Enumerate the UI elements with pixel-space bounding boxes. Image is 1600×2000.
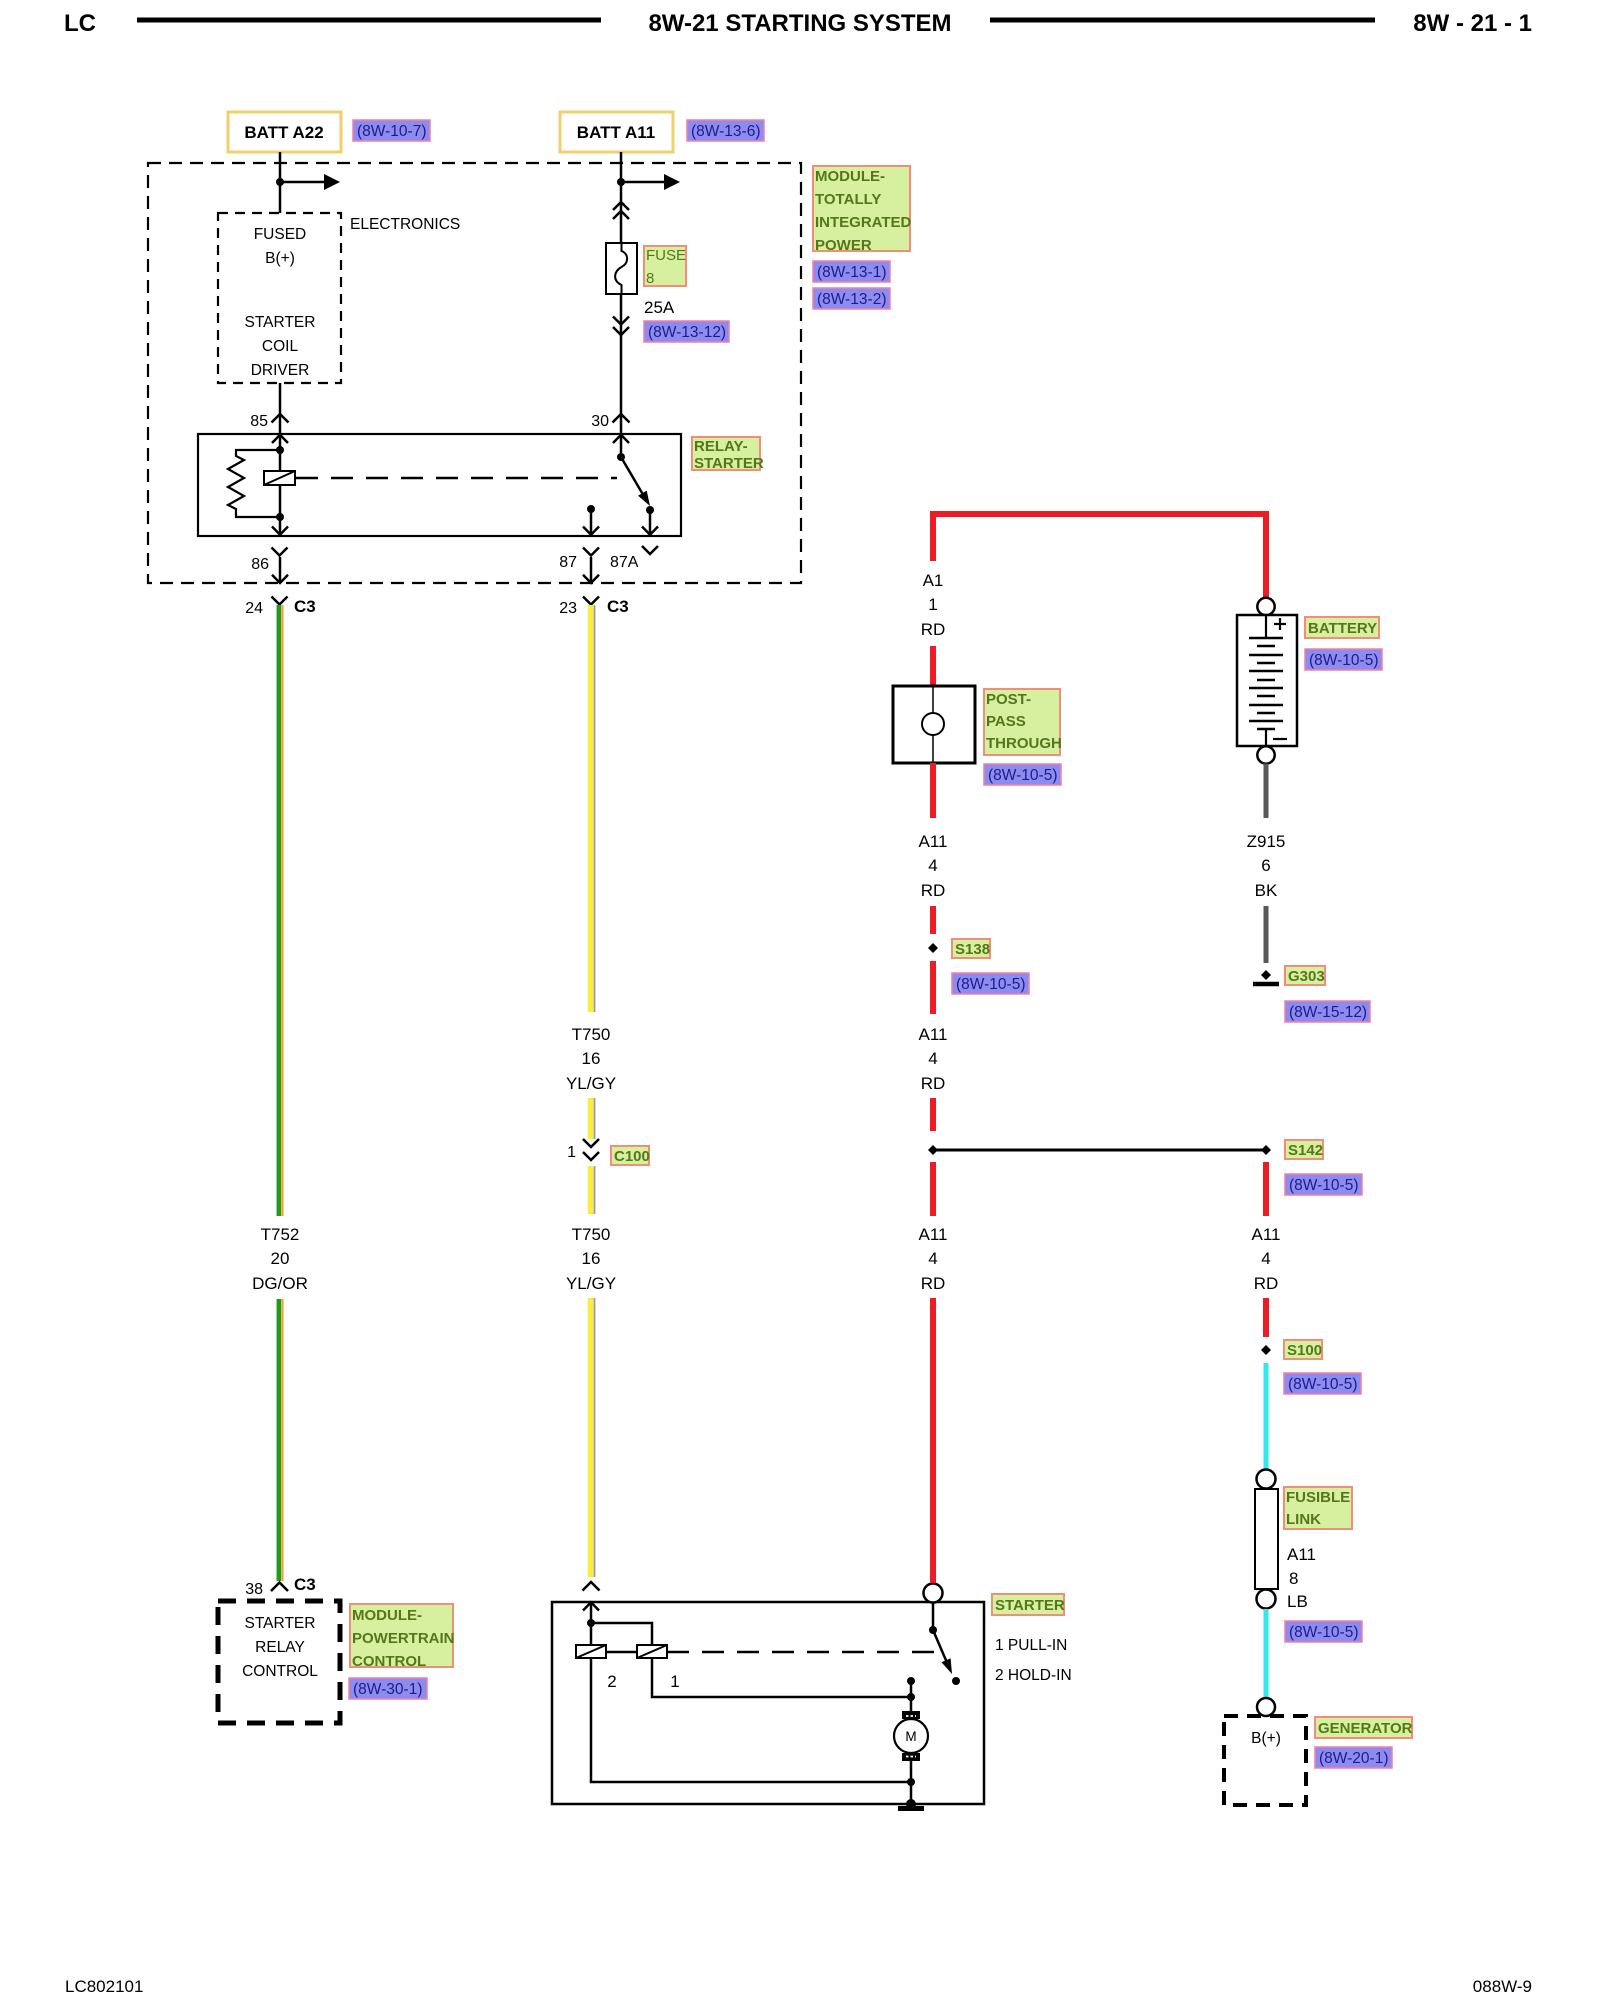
- fuse F8 symbol: [606, 243, 637, 295]
- svg-text:RELAY-: RELAY-: [694, 438, 748, 455]
- svg-text:20: 20: [271, 1249, 290, 1268]
- wire A1 1 RD top run: [933, 514, 1266, 597]
- wire label Z915 6 BK: [1247, 832, 1286, 900]
- svg-text:STARTER: STARTER: [245, 1615, 316, 1632]
- svg-text:YL/GY: YL/GY: [566, 1274, 616, 1293]
- wire A11 RD to starter solenoid: [930, 1298, 936, 1583]
- svg-text:C3: C3: [607, 597, 629, 616]
- svg-text:BK: BK: [1255, 881, 1278, 900]
- starter internal dashed actuation line: [667, 1651, 938, 1654]
- wire T752 20 DG/OR upper segment: [279, 605, 283, 1216]
- wire pin 87A to box edge with down arrow: [642, 510, 658, 535]
- reference label (8W-13-12): [644, 321, 729, 342]
- svg-text:LC: LC: [64, 10, 96, 37]
- ground label G303: [1285, 966, 1325, 985]
- svg-text:8W - 21 - 1: 8W - 21 - 1: [1413, 10, 1532, 37]
- ground G303 symbol: [1253, 970, 1279, 984]
- wire label A11 4 RD (right): [1252, 1225, 1281, 1293]
- svg-text:8W-21 STARTING SYSTEM: 8W-21 STARTING SYSTEM: [648, 10, 951, 37]
- wire label A1 1 RD: [921, 571, 946, 639]
- svg-text:(8W-10-5): (8W-10-5): [956, 976, 1025, 993]
- node motor branch top: [907, 1677, 915, 1685]
- svg-text:BATT A22: BATT A22: [244, 123, 323, 142]
- svg-text:Z915: Z915: [1247, 832, 1286, 851]
- fuse block BATT A22: [228, 112, 341, 152]
- svg-text:A11: A11: [919, 1025, 948, 1044]
- svg-text:(8W-10-5): (8W-10-5): [1289, 1624, 1358, 1641]
- label FUSE 8: [644, 246, 686, 287]
- label FUSIBLE LINK: [1284, 1487, 1352, 1529]
- wire T750 16 YL/GY segment 1: [591, 605, 595, 1012]
- wire T750 16 YL/GY segment 3: [591, 1166, 595, 1214]
- wire A11 RD to S142: [930, 1098, 936, 1131]
- module TIPM dashed boundary box: [148, 163, 801, 583]
- reference label (8W-13-2): [813, 288, 890, 309]
- starter solenoid switch wire: [932, 1602, 935, 1630]
- wire label A11 4 RD (3): [919, 1225, 948, 1293]
- connector C3 pin 23 chevron: [583, 597, 599, 605]
- svg-text:(8W-20-1): (8W-20-1): [1319, 1750, 1388, 1767]
- node at starter case: [906, 1799, 916, 1809]
- label POST-PASS THROUGH: [984, 689, 1062, 755]
- svg-text:T750: T750: [572, 1025, 611, 1044]
- svg-text:CONTROL: CONTROL: [242, 1663, 318, 1680]
- svg-text:STARTER: STARTER: [995, 1597, 1065, 1614]
- svg-text:87A: 87A: [610, 554, 639, 571]
- wire splice branch to S142: [933, 1149, 1266, 1152]
- svg-text:8: 8: [646, 270, 654, 287]
- svg-text:S138: S138: [955, 941, 990, 958]
- svg-text:C3: C3: [294, 597, 316, 616]
- svg-text:(8W-10-5): (8W-10-5): [1288, 1376, 1357, 1393]
- relay pin 85 internal wire with up arrow: [272, 434, 288, 471]
- svg-text:6: 6: [1261, 856, 1270, 875]
- wire to pull-in coil: [591, 1623, 652, 1645]
- header rule left: [137, 18, 601, 23]
- reference label (8W-10-5) post: [984, 764, 1061, 785]
- ground bar starter case: [898, 1806, 924, 1811]
- wire from FUSED box to relay pin 85: [279, 383, 282, 434]
- svg-text:FUSE: FUSE: [646, 247, 686, 264]
- wire label T750 16 YL/GY (lower): [566, 1225, 616, 1293]
- reference label (8W-30-1): [349, 1678, 427, 1699]
- svg-text:T750: T750: [572, 1225, 611, 1244]
- wire Z915 BK to ground: [1264, 906, 1269, 963]
- svg-text:(8W-15-12): (8W-15-12): [1289, 1004, 1367, 1021]
- post pass-through device: [893, 686, 975, 763]
- svg-text:25A: 25A: [644, 298, 675, 317]
- splice label S138: [952, 939, 990, 958]
- fusible link terminal top circle: [1257, 1470, 1276, 1489]
- svg-text:1: 1: [670, 1672, 679, 1691]
- svg-text:(8W-10-5): (8W-10-5): [1289, 1177, 1358, 1194]
- node splice S138: [928, 943, 938, 953]
- battery terminal top circle: [1257, 598, 1274, 615]
- generator terminal circle: [1257, 1698, 1275, 1716]
- reference label (8W-10-7): [353, 120, 430, 141]
- splice label S100: [1284, 1340, 1322, 1359]
- node solenoid switch pivot: [929, 1626, 937, 1634]
- svg-text:RD: RD: [921, 1074, 946, 1093]
- svg-text:ELECTRONICS: ELECTRONICS: [350, 216, 460, 233]
- svg-text:BATTERY: BATTERY: [1308, 620, 1377, 637]
- svg-text:RD: RD: [921, 620, 946, 639]
- node splice S100: [1261, 1345, 1271, 1355]
- svg-text:088W-9: 088W-9: [1473, 1977, 1532, 1996]
- svg-text:T752: T752: [261, 1225, 300, 1244]
- connector double chevron below fuse: [613, 317, 629, 336]
- wire from BATT A11 down: [620, 152, 623, 244]
- pull-in coil wire to motor feed: [652, 1658, 911, 1697]
- starter motor box: [552, 1602, 984, 1804]
- svg-text:LC802101: LC802101: [65, 1977, 143, 1996]
- starter input connector chevron: [583, 1582, 600, 1591]
- relay coil element: [264, 471, 295, 517]
- svg-text:A1: A1: [923, 571, 944, 590]
- reference label (8W-10-5) S100: [1284, 1373, 1361, 1394]
- svg-text:(8W-10-7): (8W-10-7): [357, 123, 426, 140]
- wire from BATT A22 down: [279, 152, 282, 213]
- svg-text:GENERATOR: GENERATOR: [1318, 1720, 1413, 1737]
- starter B+ terminal circle: [924, 1584, 943, 1603]
- battery body: [1237, 615, 1297, 746]
- svg-text:M: M: [905, 1729, 916, 1744]
- resistor in relay: [228, 450, 280, 517]
- label RELAY-STARTER: [692, 437, 764, 472]
- svg-text:8: 8: [1289, 1569, 1298, 1588]
- svg-text:POWER: POWER: [815, 237, 872, 254]
- svg-text:A11: A11: [919, 832, 948, 851]
- svg-text:A11: A11: [1287, 1545, 1316, 1564]
- svg-text:MODULE-: MODULE-: [352, 1607, 422, 1624]
- wire T752 20 DG/OR lower segment: [279, 1299, 283, 1581]
- svg-text:INTEGRATED: INTEGRATED: [815, 214, 912, 231]
- reference label (8W-13-6): [687, 120, 764, 141]
- wire from fuse down to relay pin 30: [620, 294, 623, 434]
- svg-text:4: 4: [928, 856, 937, 875]
- connector C3 pin 38 chevron: [271, 1583, 288, 1592]
- svg-text:1: 1: [567, 1144, 576, 1161]
- label MODULE-TOTALLY INTEGRATED POWER: [813, 166, 912, 254]
- wire Z915 6 BK upper: [1264, 764, 1269, 819]
- motor M with brushes: [894, 1711, 928, 1761]
- pin 85 connector chevron: [272, 414, 289, 423]
- svg-text:B(+): B(+): [265, 250, 295, 267]
- reference label (8W-15-12): [1285, 1001, 1370, 1022]
- reference label (8W-10-5) S138: [952, 973, 1029, 994]
- svg-text:TOTALLY: TOTALLY: [815, 191, 881, 208]
- pin 87A connector chevron: [642, 546, 658, 554]
- node junction on A22 feed: [276, 178, 284, 186]
- wire LB to fusible link: [1264, 1363, 1269, 1469]
- module PCM dashed box STARTER RELAY CONTROL: [218, 1601, 340, 1723]
- svg-text:86: 86: [251, 556, 269, 573]
- svg-text:23: 23: [559, 600, 577, 617]
- wire A11 RD to S138: [930, 906, 936, 934]
- svg-text:4: 4: [928, 1049, 937, 1068]
- solenoid switch blade arrow: [933, 1630, 952, 1674]
- svg-text:C3: C3: [294, 1575, 316, 1594]
- svg-text:YL/GY: YL/GY: [566, 1074, 616, 1093]
- node coil bottom junction: [276, 513, 284, 521]
- relay pin 30 internal wire with up arrow: [613, 434, 629, 457]
- svg-text:16: 16: [582, 1049, 601, 1068]
- node starter coil split: [587, 1619, 595, 1627]
- fusible link terminal bottom circle: [1257, 1590, 1276, 1609]
- svg-text:A11: A11: [919, 1225, 948, 1244]
- svg-text:24: 24: [245, 600, 263, 617]
- svg-text:38: 38: [245, 1581, 263, 1598]
- svg-text:COIL: COIL: [262, 338, 299, 355]
- starter control input wire with up arrow: [583, 1602, 599, 1623]
- svg-text:(8W-30-1): (8W-30-1): [353, 1681, 422, 1698]
- svg-text:(8W-10-5): (8W-10-5): [1309, 652, 1378, 669]
- svg-text:(8W-10-5): (8W-10-5): [988, 767, 1057, 784]
- pull-in coil 1 element: [637, 1645, 667, 1658]
- node motor feed junction: [907, 1693, 915, 1701]
- svg-text:(8W-13-6): (8W-13-6): [691, 123, 760, 140]
- wire label A11 8 LB: [1287, 1545, 1316, 1611]
- svg-text:2 HOLD-IN: 2 HOLD-IN: [995, 1667, 1072, 1684]
- svg-text:POST-: POST-: [986, 691, 1031, 708]
- svg-text:RELAY: RELAY: [255, 1639, 305, 1656]
- wire A11 4 RD below post: [930, 763, 936, 818]
- relay K1 starter relay box: [198, 434, 681, 536]
- fusible link body: [1255, 1489, 1278, 1589]
- svg-text:CONTROL: CONTROL: [352, 1653, 426, 1670]
- svg-text:C100: C100: [614, 1148, 650, 1165]
- wire branch arrow right from A11 feed: [621, 174, 680, 190]
- svg-text:(8W-13-2): (8W-13-2): [817, 291, 886, 308]
- node pin 87A contact: [646, 506, 654, 514]
- svg-text:A11: A11: [1252, 1225, 1281, 1244]
- reference label (8W-10-5) S142: [1285, 1174, 1362, 1195]
- fuse block BATT A11: [560, 112, 673, 152]
- svg-text:THROUGH: THROUGH: [986, 735, 1062, 752]
- header rule right: [990, 18, 1375, 23]
- svg-text:(8W-13-12): (8W-13-12): [648, 324, 726, 341]
- reference label (8W-10-5) battery: [1305, 649, 1382, 670]
- reference label (8W-13-1): [813, 261, 890, 282]
- svg-text:STARTER: STARTER: [694, 455, 764, 472]
- svg-text:G303: G303: [1288, 968, 1325, 985]
- svg-text:FUSED: FUSED: [254, 226, 307, 243]
- wire label T750 16 YL/GY (upper): [566, 1025, 616, 1093]
- wire A11 RD right branch upper: [1263, 1162, 1269, 1216]
- label MODULE-POWERTRAIN CONTROL: [350, 1604, 455, 1670]
- node switch pivot: [617, 453, 625, 461]
- node pin 87 contact: [587, 505, 595, 513]
- svg-text:85: 85: [250, 413, 268, 430]
- reference label (8W-20-1): [1315, 1747, 1392, 1768]
- relay switch blade arrow: [621, 457, 650, 506]
- motor ground wire: [910, 1761, 913, 1806]
- connector label C100: [611, 1146, 650, 1165]
- svg-text:RD: RD: [1254, 1274, 1279, 1293]
- wire pin 87 to box edge with down arrow: [583, 509, 599, 535]
- hold-in coil return wire: [591, 1658, 911, 1782]
- svg-text:RD: RD: [921, 1274, 946, 1293]
- connector double chevron above fuse: [613, 202, 629, 219]
- svg-text:30: 30: [591, 413, 609, 430]
- reference label (8W-10-5) link: [1285, 1621, 1362, 1642]
- svg-text:POWERTRAIN: POWERTRAIN: [352, 1630, 455, 1647]
- wire A1 RD to post: [930, 646, 936, 686]
- relay internal dashed actuation line: [296, 477, 617, 480]
- wire T750 16 YL/GY segment 4: [591, 1298, 595, 1577]
- connector C3 pin 24 chevron: [272, 597, 288, 605]
- wire A11 RD below S138: [930, 961, 936, 1014]
- svg-text:2: 2: [607, 1672, 616, 1691]
- svg-text:B(+): B(+): [1251, 1730, 1281, 1747]
- svg-text:4: 4: [1261, 1249, 1270, 1268]
- node junction on A11 feed: [617, 178, 625, 186]
- svg-text:S142: S142: [1288, 1142, 1323, 1159]
- svg-text:FUSIBLE: FUSIBLE: [1286, 1489, 1350, 1506]
- wire T750 16 YL/GY segment 2: [591, 1098, 595, 1139]
- pin 30 connector chevron: [613, 414, 630, 423]
- generator dashed box B(+): [1224, 1716, 1306, 1805]
- svg-text:RD: RD: [921, 881, 946, 900]
- pin 87 connector and wire to module edge: [583, 548, 599, 584]
- node solenoid contact: [952, 1677, 960, 1685]
- node motor return junction: [907, 1778, 915, 1786]
- pin 86 connector and wire to module edge: [272, 548, 289, 584]
- node splice S142 left: [928, 1145, 938, 1155]
- svg-text:PASS: PASS: [986, 713, 1026, 730]
- svg-text:16: 16: [582, 1249, 601, 1268]
- relay coil wire to pin 86 with down arrow: [272, 517, 288, 535]
- label STARTER: [992, 1594, 1065, 1615]
- svg-text:1 PULL-IN: 1 PULL-IN: [995, 1637, 1067, 1654]
- wire label A11 4 RD (2): [919, 1025, 948, 1093]
- sub-box FUSED B(+) STARTER COIL DRIVER dashed: [218, 213, 341, 383]
- motor branch wire: [910, 1681, 913, 1711]
- svg-text:(8W-13-1): (8W-13-1): [817, 264, 886, 281]
- wire label T752 20 DG/OR: [252, 1225, 308, 1293]
- wire A11 RD below S142 left: [930, 1162, 936, 1216]
- svg-text:LINK: LINK: [1286, 1511, 1321, 1528]
- label BATTERY: [1305, 617, 1379, 638]
- svg-text:1: 1: [928, 595, 937, 614]
- connector C100 double chevron pin 1: [583, 1139, 599, 1160]
- node coil top junction: [276, 446, 284, 454]
- svg-text:DRIVER: DRIVER: [251, 362, 310, 379]
- splice label S142: [1285, 1140, 1323, 1159]
- wire A11 RD right branch to S100: [1263, 1298, 1269, 1337]
- wire branch arrow right from A22 feed: [280, 174, 340, 190]
- wire label A11 4 RD (1): [919, 832, 948, 900]
- svg-text:87: 87: [559, 554, 577, 571]
- node splice S142: [1261, 1145, 1271, 1155]
- svg-text:DG/OR: DG/OR: [252, 1274, 308, 1293]
- svg-text:STARTER: STARTER: [245, 314, 316, 331]
- battery terminal bottom circle: [1257, 746, 1274, 763]
- wire LB to generator: [1264, 1609, 1269, 1698]
- svg-text:S100: S100: [1287, 1342, 1322, 1359]
- svg-text:BATT A11: BATT A11: [577, 123, 655, 142]
- hold-in coil 2 element: [576, 1623, 606, 1658]
- label GENERATOR: [1315, 1717, 1413, 1738]
- svg-text:4: 4: [928, 1249, 937, 1268]
- svg-text:LB: LB: [1287, 1592, 1308, 1611]
- svg-text:MODULE-: MODULE-: [815, 168, 885, 185]
- wire between coils: [606, 1651, 637, 1654]
